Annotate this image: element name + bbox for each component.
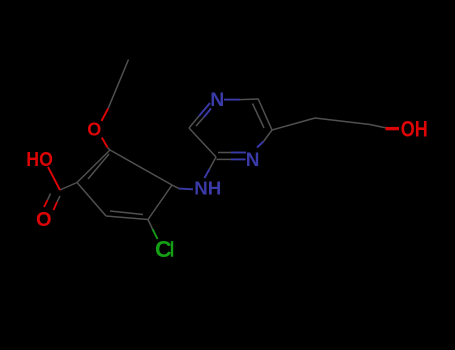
svg-text:O: O [36, 209, 52, 231]
svg-text:C: C [155, 236, 172, 262]
svg-text:N: N [246, 150, 260, 171]
svg-text:O: O [87, 120, 101, 140]
svg-text:NH: NH [194, 177, 221, 198]
svg-text:HO: HO [26, 149, 53, 171]
svg-text:OH: OH [401, 116, 428, 141]
svg-text:N: N [210, 89, 224, 111]
